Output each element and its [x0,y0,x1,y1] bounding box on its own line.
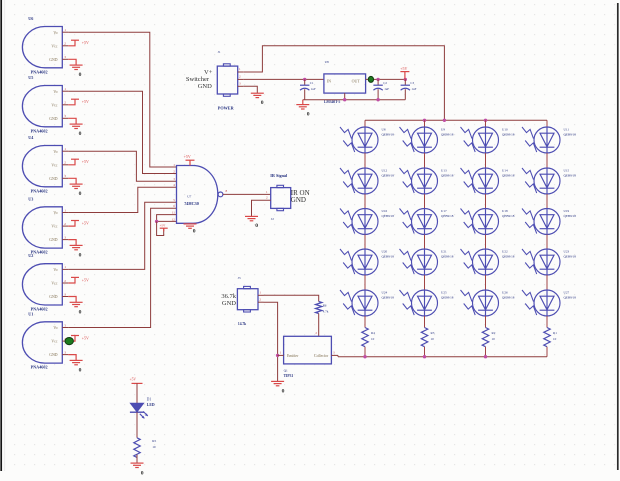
LED D1 [130,403,143,412]
node matrix col2 top [423,119,426,122]
svg-text:Vcc: Vcc [51,103,57,107]
svg-text:R1: R1 [553,331,557,335]
wire matrix column 2 segment 4 [424,275,426,290]
capacitor C3 [404,79,406,85]
svg-text:R2: R2 [492,331,496,335]
wire tie loop to +5V [157,221,164,235]
svg-text:1: 1 [64,147,66,151]
+5V symbol at U4 pin 2 [68,159,75,165]
svg-text:+5V: +5V [82,277,89,282]
svg-text:QEB9/18: QEB9/18 [382,173,395,177]
LED U18 QEB9/18 [461,209,499,235]
+5V symbol at U1 pin 2 [68,336,75,342]
wire resistor R3 to bottom rail [424,347,426,357]
svg-text:10: 10 [371,337,375,341]
LED U20 QEB9/18 [340,249,378,275]
svg-text:Vcc: Vcc [51,163,57,167]
svg-text:0: 0 [79,191,82,197]
IR receiver U1 PNA4602 body [22,322,62,363]
wire matrix column 3 segment 1 [485,153,487,168]
capacitor C1 [304,79,306,85]
ground at U6 pin 3 [68,59,76,65]
svg-text:3: 3 [64,114,66,118]
svg-text:+5V: +5V [400,66,407,71]
wire regulator output [366,78,406,80]
LED U10 QEB9/18 [461,127,499,153]
svg-text:U10: U10 [502,128,508,132]
svg-text:GND: GND [222,300,236,307]
svg-text:POWER: POWER [218,106,235,111]
wire U6 output to gate pin 1 [68,32,176,167]
wire matrix column 4 segment 4 [546,275,548,290]
node regulator gnd on rail [343,98,346,101]
svg-text:1uF: 1uF [384,87,389,91]
svg-text:GND: GND [291,196,306,204]
resistor R1 10 [544,328,550,347]
wire gate pins 11 and 12 tie [157,215,177,222]
LED U22 QEB9/18 [461,249,499,275]
wire resistor R4 to bottom rail [364,347,366,357]
svg-text:3: 3 [64,174,66,178]
svg-text:R5: R5 [152,439,156,443]
IR receiver U6 PNA4602 body [22,27,62,68]
wire matrix column 1 top segment [364,120,366,127]
svg-text:U3: U3 [28,196,33,201]
wire R5 to ground [136,455,138,463]
svg-text:QEB9/18: QEB9/18 [441,295,454,299]
svg-text:Vcc: Vcc [51,44,57,48]
svg-text:QEB9/18: QEB9/18 [564,254,577,258]
svg-text:U15: U15 [564,169,570,173]
svg-text:0: 0 [79,131,82,137]
svg-text:U8: U8 [325,60,329,64]
svg-text:14.7k: 14.7k [238,322,246,326]
ground at U1 pin 3 [68,355,76,361]
svg-text:U7: U7 [187,195,191,199]
svg-text:0: 0 [141,470,144,476]
node C2 on rail [376,98,379,101]
transistor Q1 TIP31 body [284,336,332,364]
svg-text:GND: GND [49,58,57,62]
svg-text:8: 8 [226,189,228,193]
ground at U3 pin 3 [68,240,76,246]
wire power rail bottom [303,99,406,101]
svg-text:4.7k: 4.7k [323,309,329,313]
svg-text:U27: U27 [564,291,570,295]
svg-text:U8: U8 [382,128,386,132]
wire matrix column 4 segment 1 [546,153,548,168]
node at C3 top [404,78,407,81]
svg-text:QEB9/18: QEB9/18 [564,295,577,299]
border frame right [617,3,619,470]
svg-text:PNA4602: PNA4602 [31,128,48,133]
LED U25 QEB9/18 [400,290,438,316]
capacitor C2 [377,79,379,85]
ground at U5 pin 3 [68,118,76,124]
wire LED matrix top rail [365,119,547,121]
svg-text:1: 1 [64,208,66,212]
resistor R2 10 [482,328,488,347]
svg-text:U23: U23 [564,250,570,254]
svg-text:QEB9/18: QEB9/18 [441,254,454,258]
Q1 collector stub and wire to matrix [331,354,338,356]
svg-text:0: 0 [193,229,196,235]
svg-text:10: 10 [553,337,557,341]
svg-text:LED: LED [147,403,155,407]
connector J3 body [237,289,258,310]
svg-text:QEB9/18: QEB9/18 [382,295,395,299]
wire J1 pin 1 to LED matrix top [243,46,444,121]
svg-text:C2: C2 [383,81,387,85]
svg-text:2: 2 [64,42,66,46]
node at Q1 emitter junction [276,354,279,357]
green ERC marker on U1 pin 2 [65,338,73,345]
svg-text:J1: J1 [218,50,221,54]
U2 pin 2 stub [62,282,68,284]
svg-text:V+: V+ [204,69,213,76]
wire matrix column 4 segment 3 [546,235,548,250]
svg-text:U22: U22 [502,250,508,254]
svg-text:U21: U21 [441,250,447,254]
svg-text:0: 0 [282,388,285,394]
svg-text:U25: U25 [441,291,447,295]
wire matrix column 2 to resistor [424,316,426,328]
wire J1 pin 2 to regulator input [243,78,324,80]
+5V symbol at U3 pin 2 [68,221,75,227]
wire matrix column 1 segment 1 [364,153,366,168]
resistor R4 10 [362,328,368,347]
U6 pin 1 stub [62,31,68,33]
svg-text:PNA4602: PNA4602 [31,188,48,193]
resistor R5 10 [134,438,140,458]
svg-text:IN: IN [327,78,331,83]
wire U5 output to gate pin 2 [68,91,176,173]
svg-text:1: 1 [64,28,66,32]
LED U13 QEB9/18 [400,168,438,194]
U6 pin 3 stub [62,58,68,60]
svg-text:0: 0 [307,112,310,118]
LED U17 QEB9/18 [400,209,438,235]
LED U8 QEB9/18 [340,127,378,153]
node matrix col3 top [484,119,487,122]
LED U9 QEB9/18 [400,127,438,153]
svg-text:0: 0 [255,223,258,229]
wire +5V to D1 [136,383,138,403]
ground at J2 pin 2 [245,215,258,217]
wire matrix column 4 top segment [546,120,548,127]
svg-text:1: 1 [64,323,66,327]
wire U3 output to gate pin 4 [68,187,176,212]
svg-text:QEB9/18: QEB9/18 [382,214,395,218]
svg-text:U13: U13 [441,169,447,173]
svg-text:1uF: 1uF [411,87,416,91]
U1 pin 2 stub [62,340,68,342]
svg-text:3: 3 [64,350,66,354]
svg-text:0: 0 [79,72,82,78]
svg-text:QEB9/18: QEB9/18 [502,173,515,177]
svg-text:GND: GND [198,83,212,90]
svg-text:12: 12 [172,217,176,221]
node at C1 top [303,78,306,81]
border frame left [0,0,2,471]
wire D1 to R5 [136,412,138,438]
svg-text:U16: U16 [382,209,388,213]
svg-text:QEB9/18: QEB9/18 [502,214,515,218]
resistor R3 10 [421,328,427,347]
U5 pin 3 stub [62,117,68,119]
U6 pin 2 stub [62,45,68,47]
svg-text:2: 2 [64,101,66,105]
wire J3 pin 2 down to ground [264,302,278,381]
svg-text:+5V: +5V [82,221,89,226]
svg-text:GND: GND [49,177,57,181]
LED U26 QEB9/18 [461,290,499,316]
svg-text:TIP31: TIP31 [284,374,294,378]
svg-text:2: 2 [64,222,66,226]
U1 pin 1 stub [62,327,68,329]
svg-text:+5V: +5V [184,154,191,159]
wire resistor R1 to bottom rail [546,347,548,357]
svg-text:C1: C1 [310,81,314,85]
wire matrix column 1 segment 4 [364,275,366,290]
svg-text:U9: U9 [441,128,445,132]
wire resistor R2 to bottom rail [485,347,487,357]
ground at J1 pin 3 [251,92,264,94]
svg-text:GND: GND [49,117,57,121]
node matrix feed [443,119,446,122]
svg-text:D1: D1 [147,398,152,402]
svg-text:QEB9/18: QEB9/18 [502,254,515,258]
wire matrix column 3 segment 4 [485,275,487,290]
svg-text:3: 3 [64,55,66,59]
op-gate U7 74HC30 body [177,166,218,224]
+5V symbol at regulator output [404,72,406,80]
+5V symbol at U6 pin 2 [68,40,75,46]
svg-text:PNA4602: PNA4602 [31,365,48,370]
connector J1 POWER body [217,66,237,94]
wire R6 to transistor base [318,314,320,337]
wire matrix column 2 top segment [424,120,426,127]
svg-text:0: 0 [261,100,264,106]
D1 light arrows [140,414,145,419]
LED U23 QEB9/18 [522,249,560,275]
ground below Q1 [271,380,284,382]
svg-text:QEB9/18: QEB9/18 [441,173,454,177]
svg-text:U4: U4 [28,135,34,140]
svg-text:+5V: +5V [82,40,89,45]
ground at U2 pin 3 [68,297,76,303]
svg-text:LM340T-5: LM340T-5 [324,100,340,104]
+5V symbol at U2 pin 2 [68,277,75,283]
node bottom rail col1 [363,355,366,358]
svg-text:GND: GND [49,353,57,357]
svg-text:0: 0 [79,367,82,373]
wire matrix column 3 to resistor [485,316,487,328]
LED U16 QEB9/18 [340,209,378,235]
LED U19 QEB9/18 [522,209,560,235]
ground at gate power pin [189,222,191,225]
green ERC marker on regulator output [368,76,373,82]
svg-text:PNA4602: PNA4602 [31,69,48,74]
ground at U4 pin 3 [68,178,76,184]
U4 pin 2 stub [62,164,68,166]
wire matrix column 3 segment 2 [485,194,487,209]
svg-text:U24: U24 [382,291,388,295]
svg-text:GND: GND [49,295,57,299]
svg-text:QEB9/18: QEB9/18 [564,214,577,218]
svg-text:Vo: Vo [53,211,57,215]
LED U24 QEB9/18 [340,290,378,316]
U3 pin 2 stub [62,225,68,227]
svg-text:Vcc: Vcc [51,340,57,344]
svg-text:U11: U11 [564,128,570,132]
LED U14 QEB9/18 [461,168,499,194]
svg-text:C3: C3 [410,81,414,85]
LED U12 QEB9/18 [340,168,378,194]
svg-text:U14: U14 [502,169,508,173]
svg-text:R3: R3 [431,331,435,335]
node bottom rail col2 [423,355,426,358]
svg-text:74HC30: 74HC30 [184,201,199,206]
svg-text:U20: U20 [382,250,388,254]
svg-text:GND: GND [49,238,57,242]
svg-text:Vo: Vo [53,90,57,94]
wire matrix column 4 to resistor [546,316,548,328]
svg-text:QEB9/18: QEB9/18 [564,132,577,136]
svg-text:Vo: Vo [53,268,57,272]
node at C2 top [376,78,379,81]
svg-text:J3: J3 [238,276,241,280]
resistor R6 4.7k [316,302,322,314]
regulator ground pin [344,93,346,100]
wire LED matrix bottom rail [338,356,547,358]
svg-text:Vo: Vo [53,326,57,330]
svg-text:Vo: Vo [53,150,57,154]
svg-text:QEB9/18: QEB9/18 [382,132,395,136]
wire matrix column 3 segment 3 [485,235,487,250]
svg-text:2: 2 [64,279,66,283]
node bottom rail col3 [484,355,487,358]
LED U11 QEB9/18 [522,127,560,153]
svg-text:3: 3 [64,235,66,239]
LED U27 QEB9/18 [522,290,560,316]
svg-text:U19: U19 [564,209,570,213]
svg-text:J2: J2 [271,217,274,221]
svg-text:QEB9/18: QEB9/18 [441,214,454,218]
U3 pin 1 stub [62,212,68,214]
node at gate pin 12 tie [155,220,158,223]
svg-text:Vcc: Vcc [51,282,57,286]
svg-text:U12: U12 [382,169,388,173]
svg-text:Q1: Q1 [284,368,288,372]
svg-text:U5: U5 [28,75,33,80]
wire J1 pin 3 to ground [243,86,257,93]
wire matrix column 1 to resistor [364,316,366,328]
svg-text:0: 0 [79,252,82,258]
U4 pin 1 stub [62,150,68,152]
regulator U8 LM340T-5 body [324,74,366,93]
U2 pin 1 stub [62,268,68,270]
U3 pin 3 stub [62,239,68,241]
svg-text:QEB9/18: QEB9/18 [441,132,454,136]
svg-text:R4: R4 [371,331,375,335]
svg-text:U6: U6 [28,16,33,21]
svg-text:10: 10 [492,337,496,341]
ground at power rail [302,100,304,105]
connector J2 IR Signal body [271,188,291,209]
U2 pin 3 stub [62,296,68,298]
+5V symbol at unused gate inputs [160,227,168,229]
svg-text:10: 10 [431,337,435,341]
svg-text:U18: U18 [502,209,508,213]
svg-text:Collector: Collector [314,354,329,358]
J3 pin stubs [258,294,264,296]
wire matrix column 3 top segment [485,120,487,127]
svg-text:U2: U2 [28,253,33,258]
LED U21 QEB9/18 [400,249,438,275]
svg-text:U26: U26 [502,291,508,295]
svg-text:Vcc: Vcc [51,225,57,229]
svg-text:1uF: 1uF [311,87,316,91]
wire matrix column 1 segment 3 [364,235,366,250]
IR receiver U4 PNA4602 body [22,146,62,187]
svg-text:Emitter: Emitter [287,354,299,358]
wire matrix column 2 segment 1 [424,153,426,168]
svg-text:+5V: +5V [82,336,89,341]
J1 pin stubs [238,71,244,73]
U4 pin 3 stub [62,177,68,179]
wire J2 pin 2 to ground [252,200,271,216]
svg-text:IR Signal: IR Signal [270,173,288,178]
svg-text:QEB9/18: QEB9/18 [502,132,515,136]
svg-text:Vo: Vo [53,31,57,35]
+5V symbol at gate power pin [189,160,191,165]
Q1 emitter stub [278,354,284,356]
gate output pin 8 wire to J2 [223,193,271,195]
svg-text:+5V: +5V [160,223,166,227]
svg-text:3: 3 [64,292,66,296]
LED U15 QEB9/18 [522,168,560,194]
svg-text:0: 0 [79,309,82,315]
wire U1 output to gate pin 6 [68,208,176,327]
svg-text:11: 11 [172,211,175,215]
svg-text:U1: U1 [28,311,33,316]
wire matrix column 4 segment 2 [546,194,548,209]
svg-text:U17: U17 [441,209,447,213]
svg-text:QEB9/18: QEB9/18 [502,295,515,299]
IR receiver U5 PNA4602 body [22,86,62,127]
svg-text:OUT: OUT [352,78,361,83]
U5 pin 2 stub [62,104,68,106]
ground below R5 [131,462,144,464]
wire matrix column 1 segment 2 [364,194,366,209]
+5V symbol at U5 pin 2 [68,99,75,105]
svg-text:QEB9/18: QEB9/18 [382,254,395,258]
svg-text:+5V: +5V [82,99,89,104]
U1 pin 3 stub [62,354,68,356]
svg-text:+5V: +5V [130,378,137,382]
svg-text:+5V: +5V [82,159,89,164]
svg-text:1: 1 [64,87,66,91]
wire matrix column 2 segment 3 [424,235,426,250]
wire U4 output to gate pin 3 [68,151,176,181]
wire U2 output to gate pin 5 [68,202,176,269]
wire matrix column 2 segment 2 [424,194,426,209]
U5 pin 1 stub [62,90,68,92]
IR receiver U3 PNA4602 body [22,207,62,248]
svg-text:2: 2 [64,161,66,165]
svg-text:R6: R6 [323,304,327,308]
